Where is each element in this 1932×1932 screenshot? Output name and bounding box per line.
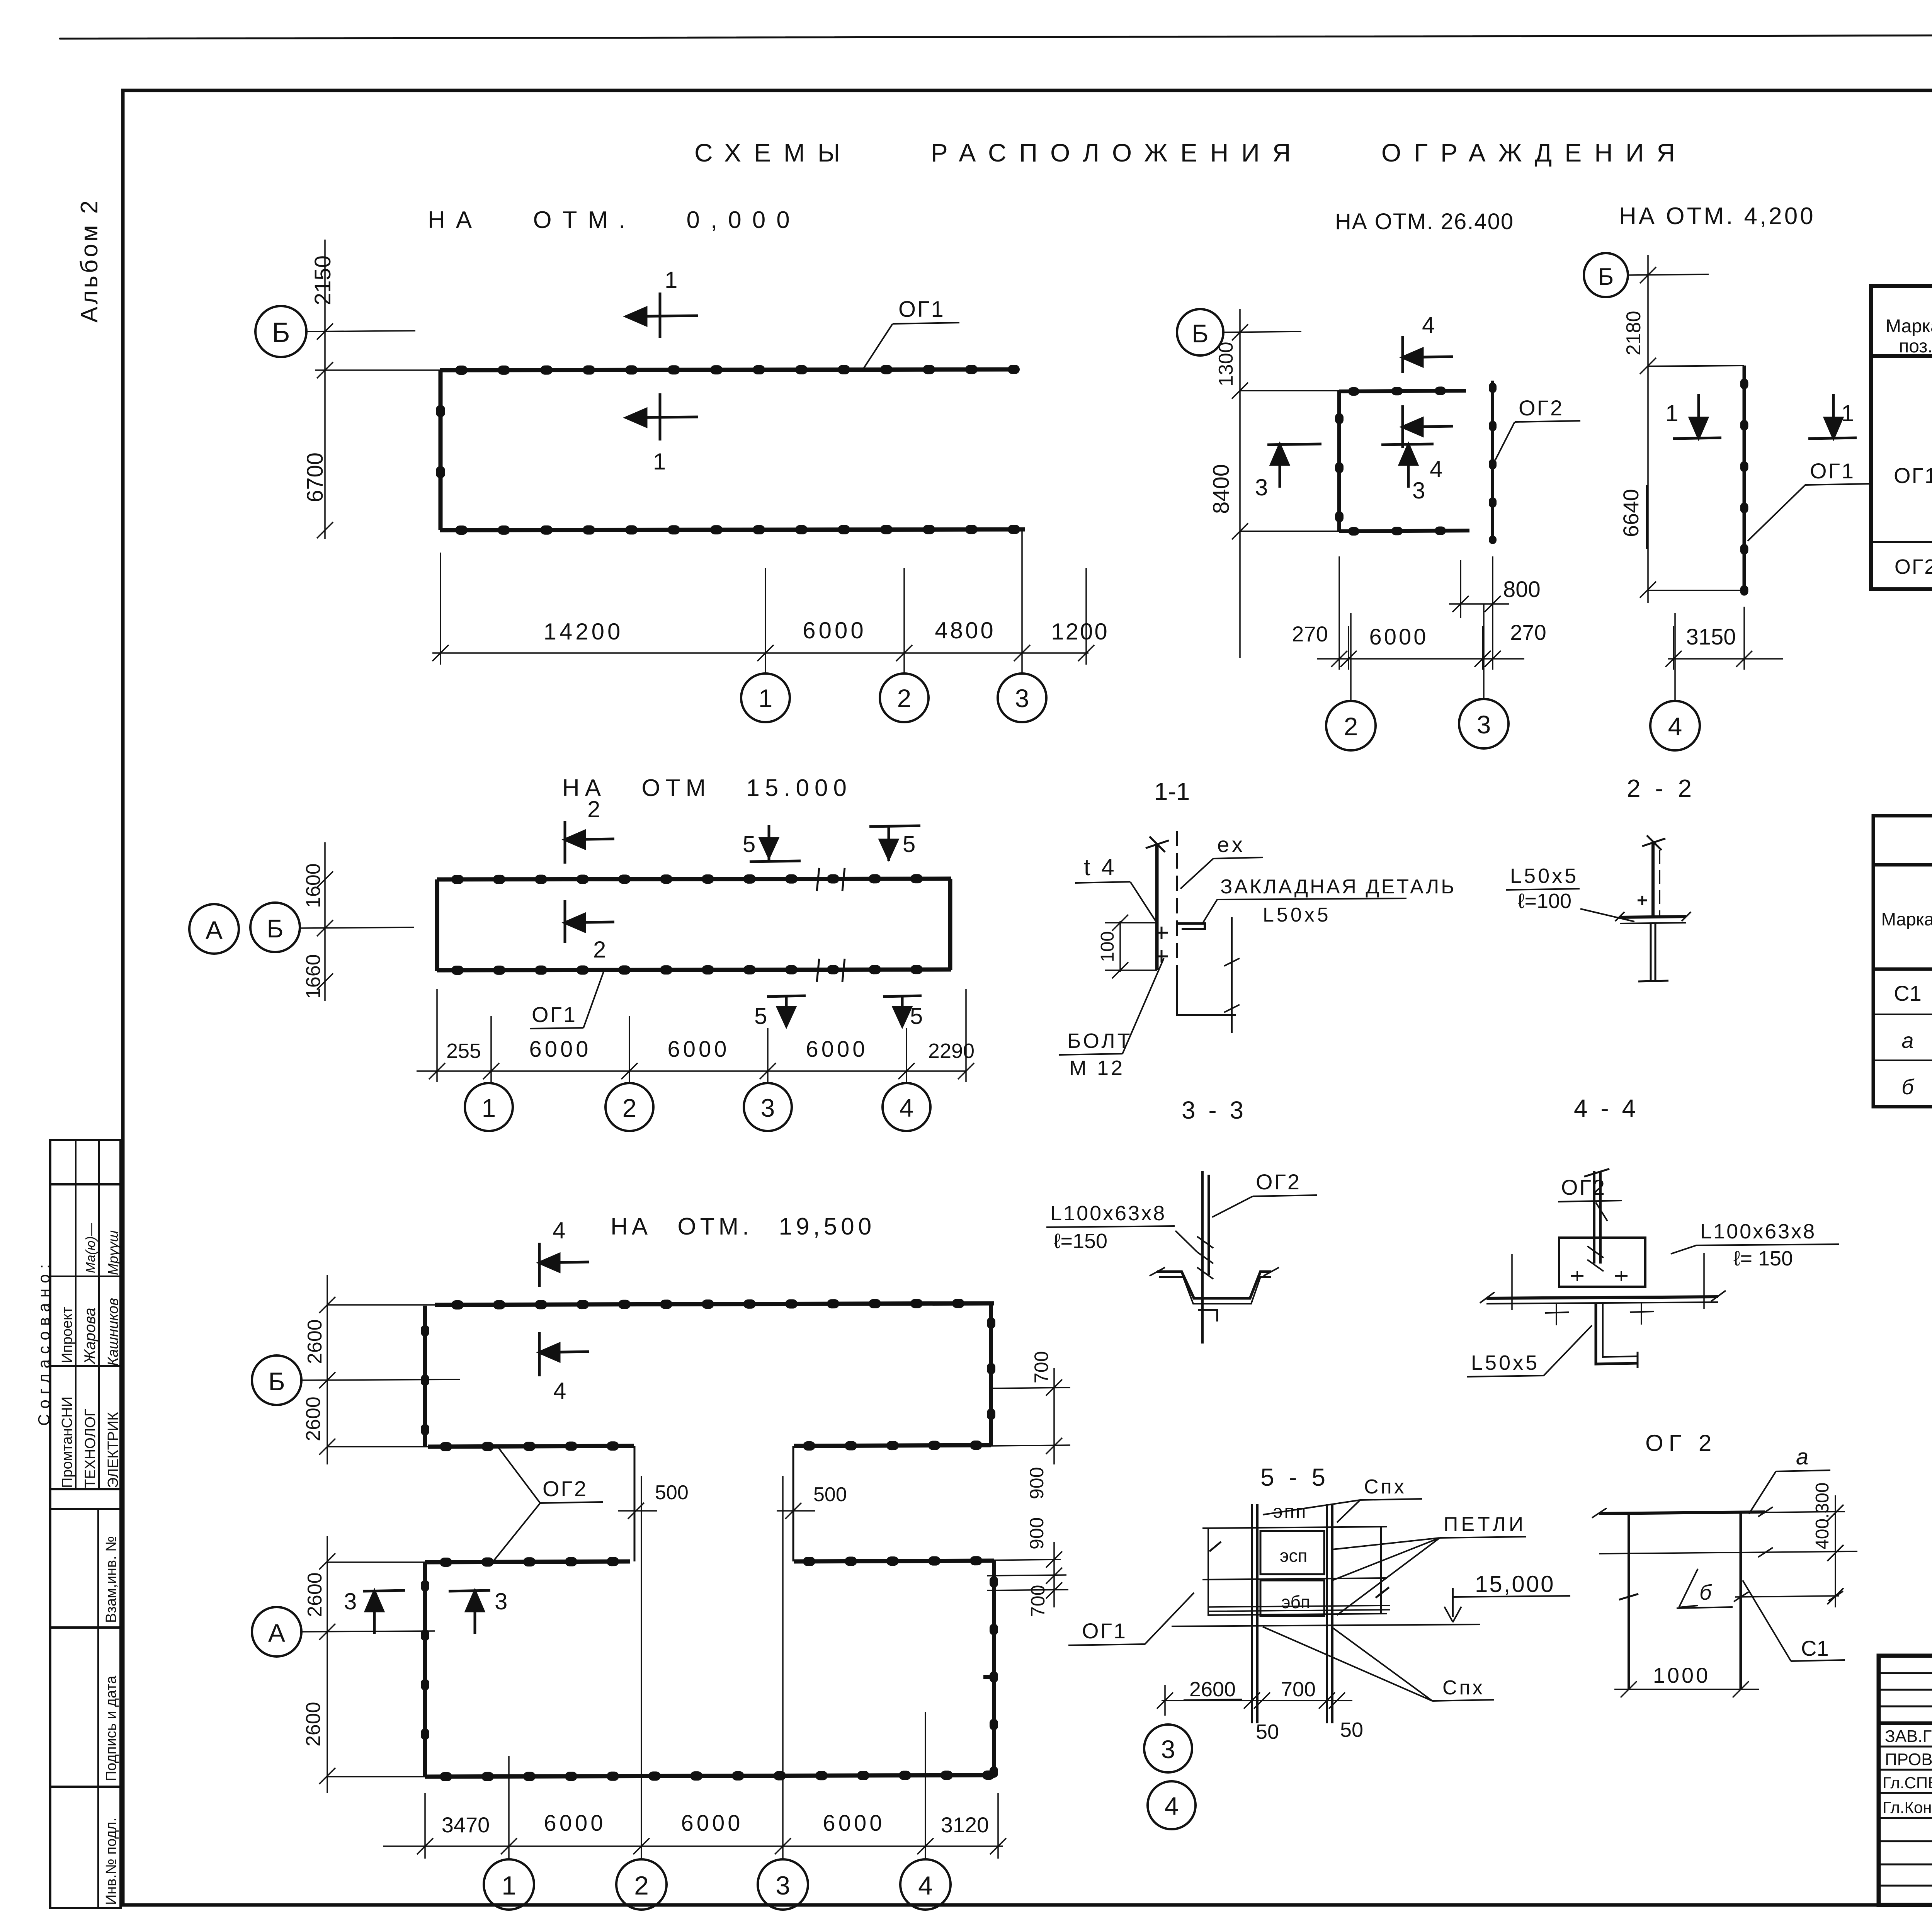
heavy jog lower band plan5: [983, 1675, 996, 1679]
post double line detail33: [1155, 845, 1159, 970]
section marker 3 right plan2: [1381, 444, 1434, 488]
axis circle B plan5: [252, 1355, 301, 1405]
svg-text:3: 3: [1412, 478, 1425, 503]
svg-text:4: 4: [1430, 456, 1442, 482]
svg-text:500: 500: [813, 1483, 847, 1506]
svg-text:270: 270: [1292, 622, 1328, 646]
svg-text:3 - 3: 3 - 3: [1182, 1096, 1247, 1124]
post box-right: [1594, 1171, 1600, 1264]
svg-text:ОГ2: ОГ2: [543, 1476, 588, 1501]
svg-text:СХЕМЫ РАСПОЛОЖЕНИЯ ОГРАЖДЕНИ: СХЕМЫ РАСПОЛОЖЕНИЯ ОГРАЖДЕНИЯ: [694, 138, 1688, 167]
section marker 3 left plan2: [1267, 444, 1321, 488]
posts detail55: [1252, 1504, 1257, 1723]
svg-text:б: б: [1901, 1075, 1915, 1099]
axis circle 3 plan1: [998, 673, 1046, 722]
svg-text:ОГ 2: ОГ 2: [1645, 1430, 1717, 1456]
axis circle 1 plan1: [741, 673, 790, 722]
svg-text:2600: 2600: [302, 1396, 325, 1441]
svg-text:1: 1: [759, 684, 773, 713]
svg-text:Согласовано:: Согласовано:: [35, 1259, 53, 1426]
svg-text:Кашников: Кашников: [105, 1298, 121, 1366]
section marker 5 top-left plan4: [750, 825, 801, 862]
dim 100 detail33: [1105, 915, 1157, 978]
lower band left post plan5: [423, 1562, 427, 1777]
bottom dim line plan2: [1317, 556, 1524, 670]
bent plate box-right: [1596, 1304, 1638, 1364]
svg-text:2: 2: [634, 1871, 649, 1900]
svg-text:700: 700: [1281, 1678, 1316, 1701]
axis circles plan5: [484, 1859, 951, 1910]
vertical dim line plan3: [1640, 255, 1656, 603]
fence line top plan1: [440, 369, 1015, 370]
vedomost table frame: [1873, 816, 1932, 1107]
SEC_TITLES2: [255, 240, 1109, 722]
spec table frame: [1871, 286, 1932, 589]
svg-text:ОГ2: ОГ2: [1895, 555, 1932, 578]
svg-text:6000: 6000: [823, 1811, 885, 1836]
axis circle B plan3: [1584, 253, 1628, 297]
svg-text:6000: 6000: [667, 1037, 730, 1062]
axis circle 2 plan1: [880, 673, 929, 722]
svg-text:Подпись и дата: Подпись и дата: [103, 1675, 119, 1781]
title block frame: [1879, 1656, 1932, 1905]
svg-text:800: 800: [1503, 577, 1541, 602]
upper band top line plan5: [435, 1303, 994, 1305]
svg-text:1: 1: [502, 1871, 516, 1900]
svg-text:3: 3: [776, 1871, 790, 1900]
section marker 2 top plan4: [565, 821, 614, 864]
svg-text:б: б: [1699, 1580, 1713, 1604]
svg-text:500: 500: [655, 1481, 689, 1504]
axis B line plan1: [306, 331, 415, 332]
top rail fragment: [1599, 1512, 1765, 1514]
left dim chain upper plan5: [319, 1275, 435, 1464]
channel section channel-left: [1157, 1272, 1271, 1298]
svg-text:Ма(ю)—: Ма(ю)—: [83, 1223, 98, 1273]
svg-text:L50х5: L50х5: [1471, 1351, 1539, 1374]
svg-text:Марка,: Марка,: [1886, 316, 1932, 337]
section marker 4 mid plan2: [1403, 405, 1453, 448]
svg-text:ОГ1: ОГ1: [532, 1002, 577, 1027]
svg-text:5: 5: [754, 1003, 767, 1029]
svg-text:3470: 3470: [442, 1813, 490, 1837]
svg-text:4: 4: [900, 1094, 914, 1122]
svg-text:С1: С1: [1801, 1636, 1829, 1660]
fence bottom plan3: [1648, 590, 1744, 591]
side verticals detail55: [1208, 1527, 1381, 1615]
section marker 1 upper plan1: [626, 293, 698, 338]
svg-text:15,000: 15,000: [1475, 1571, 1555, 1597]
svg-text:Взам,инв. №: Взам,инв. №: [103, 1536, 119, 1623]
svg-text:Жарова: Жарова: [82, 1308, 99, 1365]
section marker 1 left plan3: [1673, 394, 1721, 439]
svg-text:5: 5: [910, 1003, 923, 1029]
vertical dim plan4: [317, 842, 333, 1001]
svg-text:L50х5: L50х5: [1510, 864, 1578, 888]
post channel-left: [1202, 1171, 1209, 1344]
svg-text:3: 3: [761, 1094, 775, 1122]
section marker 1 right plan3: [1808, 394, 1857, 439]
svg-text:2600: 2600: [304, 1572, 326, 1617]
lower band top left segment plan5: [425, 1561, 630, 1562]
dim 400.300 fragment: [1835, 1495, 1836, 1607]
bottom dim detail55: [1157, 1685, 1352, 1716]
axis circle B plan4: [250, 903, 300, 952]
svg-text:ОГ1: ОГ1: [1082, 1619, 1127, 1643]
axis circle 4 plan3: [1650, 701, 1700, 750]
svg-text:6000: 6000: [803, 617, 866, 643]
svg-text:L100х63х8: L100х63х8: [1700, 1220, 1816, 1243]
svg-text:ОГ1: ОГ1: [1810, 459, 1855, 483]
svg-text:Б: Б: [267, 914, 283, 943]
svg-text:4 - 4: 4 - 4: [1574, 1094, 1639, 1122]
svg-text:2600: 2600: [304, 1319, 326, 1364]
stem detail44: [1651, 923, 1655, 980]
vertical dim line plan1: [315, 240, 440, 539]
svg-text:2: 2: [897, 684, 912, 713]
bolt crosses detail33: [1155, 927, 1168, 963]
joint break marks plan4: [817, 868, 845, 982]
svg-text:ОГ1: ОГ1: [1894, 463, 1932, 488]
svg-text:ПРОВ.: ПРОВ.: [1885, 1750, 1932, 1769]
fence rect plan4 bottom: [437, 969, 951, 970]
svg-text:50: 50: [1256, 1720, 1279, 1743]
svg-text:ТЕХНОЛОГ: ТЕХНОЛОГ: [82, 1408, 99, 1488]
svg-text:2: 2: [593, 937, 606, 963]
svg-text:ПЕТЛИ: ПЕТЛИ: [1444, 1513, 1526, 1536]
svg-text:Б: Б: [1192, 319, 1208, 348]
fence rect plan4 right: [948, 879, 952, 970]
svg-text:6640: 6640: [1619, 489, 1643, 537]
svg-text:a: a: [1796, 1444, 1808, 1469]
svg-text:4: 4: [1668, 712, 1682, 741]
slab line box-right: [1486, 1297, 1718, 1298]
svg-text:Гл.Конс.: Гл.Конс.: [1883, 1798, 1932, 1816]
svg-text:2180: 2180: [1622, 311, 1645, 355]
section marker 4 top plan5: [539, 1243, 589, 1287]
svg-text:эсп: эсп: [1280, 1546, 1307, 1566]
svg-text:5: 5: [743, 831, 755, 857]
post detail44: [1651, 843, 1655, 917]
svg-text:ℓ=100: ℓ=100: [1518, 889, 1571, 913]
svg-text:ЗАВ.ГР: ЗАВ.ГР: [1885, 1727, 1932, 1746]
SEC_SPECEND: [1873, 816, 1932, 1107]
svg-text:3: 3: [1015, 684, 1029, 713]
axis line plan4: [300, 927, 414, 928]
third rail fragment: [1735, 1596, 1839, 1597]
fence bottom plan2: [1240, 531, 1339, 532]
fence right post line plan3: [1743, 366, 1746, 592]
svg-text:6000: 6000: [529, 1037, 591, 1062]
svg-text:3: 3: [1255, 474, 1268, 500]
svg-text:700: 700: [1031, 1351, 1052, 1383]
section marker 5 bottom-left plan4: [767, 996, 806, 1026]
svg-text:900: 900: [1026, 1517, 1048, 1549]
top edge thin line: [60, 34, 1932, 39]
svg-text:1: 1: [482, 1094, 496, 1122]
axis circle A plan4: [189, 904, 239, 954]
svg-text:НА ОТМ. 4,200: НА ОТМ. 4,200: [1619, 203, 1816, 230]
svg-text:1: 1: [653, 449, 666, 474]
svg-text:3: 3: [495, 1588, 507, 1614]
svg-text:а: а: [1901, 1028, 1913, 1053]
SEC_PLAN1END: [1154, 309, 1580, 805]
dim 1000 fragment: [1614, 1681, 1759, 1697]
svg-text:t 4: t 4: [1084, 854, 1117, 880]
slash mark detail55: [1209, 1542, 1389, 1598]
svg-text:2: 2: [1344, 712, 1358, 741]
svg-text:100: 100: [1097, 931, 1118, 962]
jog verticals 500 plan5: [634, 1446, 793, 1561]
tee bar detail44: [1620, 917, 1686, 917]
svg-text:ℓ= 150: ℓ= 150: [1733, 1247, 1793, 1270]
svg-text:Инв.№ подл.: Инв.№ подл.: [103, 1818, 119, 1905]
upper band bottom right segment plan5: [794, 1445, 991, 1446]
svg-text:1000: 1000: [1653, 1663, 1711, 1687]
section marker 1 lower plan1: [626, 393, 698, 440]
plate bracket detail33: [1177, 923, 1205, 929]
bottom double line detail55: [1207, 1605, 1390, 1611]
axis circle 3 detail55: [1144, 1725, 1192, 1772]
section marker 4 lower plan5: [539, 1332, 589, 1376]
svg-text:3150: 3150: [1686, 624, 1736, 650]
fence rect plan4 top: [437, 879, 951, 879]
SEC_DETAILSEND: [1871, 286, 1932, 589]
svg-text:А: А: [206, 916, 223, 944]
svg-text:1: 1: [1841, 400, 1854, 426]
svg-text:1: 1: [1665, 400, 1678, 426]
svg-text:400.300: 400.300: [1812, 1482, 1833, 1549]
svg-text:1660: 1660: [302, 954, 325, 999]
SEC_PLAN15END: [252, 1213, 1194, 1910]
dim 500 left plan5: [618, 1503, 657, 1519]
fence rect plan4 left: [435, 879, 439, 971]
svg-text:6000: 6000: [681, 1811, 743, 1836]
svg-text:2: 2: [622, 1094, 637, 1122]
axis B line plan3: [1628, 274, 1709, 275]
bracket detail44: [1638, 896, 1647, 905]
section marker 3 right plan5: [449, 1590, 490, 1634]
svg-text:Альбом 2: Альбом 2: [76, 198, 103, 323]
right post fragment: [1740, 1514, 1742, 1689]
upper band bottom left segment plan5: [428, 1446, 634, 1447]
svg-text:Спх: Спх: [1364, 1476, 1406, 1498]
svg-text:2600: 2600: [1189, 1678, 1236, 1701]
svg-text:НА ОТМ. 19,500: НА ОТМ. 19,500: [611, 1213, 875, 1240]
svg-text:2 - 2: 2 - 2: [1627, 774, 1696, 802]
svg-text:Гл.СПЕЦ: Гл.СПЕЦ: [1883, 1774, 1932, 1792]
right jogs upper band plan5: [991, 1368, 1070, 1464]
axis circle B plan2: [1177, 309, 1223, 355]
svg-text:3: 3: [1477, 710, 1491, 739]
fence left post plan2: [1337, 391, 1341, 531]
svg-text:ЭЛЕКТРИК: ЭЛЕКТРИК: [105, 1412, 121, 1488]
lower stem detail33: [1177, 970, 1236, 1015]
lower band top right segment plan5: [794, 1561, 994, 1561]
svg-text:НА ОТМ. 0,000: НА ОТМ. 0,000: [428, 207, 801, 233]
left dim chain lower plan5: [319, 1536, 425, 1793]
svg-text:900: 900: [1026, 1467, 1048, 1499]
fence post left plan1: [439, 370, 443, 530]
svg-text:Спх: Спх: [1442, 1677, 1485, 1699]
svg-text:700: 700: [1027, 1585, 1049, 1617]
svg-text:4: 4: [1422, 312, 1435, 338]
svg-text:L50х5: L50х5: [1263, 904, 1331, 926]
axis circle 4 detail55: [1148, 1781, 1196, 1829]
svg-text:270: 270: [1510, 620, 1546, 645]
svg-text:14200: 14200: [544, 619, 624, 645]
svg-text:НА ОТМ 15.000: НА ОТМ 15.000: [562, 775, 852, 801]
box box-right: [1559, 1238, 1645, 1287]
bottom dim line plan5: [383, 1476, 1006, 1859]
svg-text:ℓ=150: ℓ=150: [1054, 1230, 1107, 1253]
svg-text:Мрүуш: Мрүуш: [105, 1230, 121, 1275]
fence top plan3: [1648, 366, 1744, 366]
left post fragment: [1628, 1514, 1630, 1689]
svg-text:1300: 1300: [1215, 342, 1237, 386]
second rail fragment: [1599, 1551, 1857, 1554]
svg-text:НА ОТМ. 26.400: НА ОТМ. 26.400: [1335, 209, 1514, 234]
rails detail55: [1202, 1527, 1387, 1528]
svg-text:ПромтанСНИ: ПромтанСНИ: [59, 1396, 75, 1488]
svg-text:255: 255: [446, 1039, 481, 1063]
svg-text:2600: 2600: [302, 1702, 325, 1747]
svg-text:6000: 6000: [1369, 624, 1428, 650]
svg-text:Марка: Марка: [1881, 909, 1932, 929]
svg-text:ОГ2: ОГ2: [1256, 1170, 1301, 1194]
svg-text:5 - 5: 5 - 5: [1260, 1463, 1329, 1491]
svg-text:1-1: 1-1: [1154, 777, 1190, 805]
svg-text:4800: 4800: [935, 617, 995, 643]
svg-text:ЗАКЛАДНАЯ ДЕТАЛЬ: ЗАКЛАДНАЯ ДЕТАЛЬ: [1220, 876, 1456, 898]
svg-text:1600: 1600: [302, 863, 325, 908]
hook bottom channel-left: [1198, 1310, 1217, 1321]
lower band bottom plan5: [425, 1775, 996, 1777]
svg-text:4: 4: [1165, 1792, 1179, 1820]
svg-text:2290: 2290: [928, 1039, 975, 1063]
section marker 5 top-right plan4: [869, 826, 920, 861]
left margin stamp table: [50, 1140, 121, 1908]
axis circle 3 plan2: [1459, 699, 1509, 748]
svg-text:Ипроект: Ипроект: [59, 1307, 75, 1363]
svg-text:1: 1: [665, 267, 677, 293]
svg-text:БОЛТ: БОЛТ: [1067, 1029, 1133, 1053]
section marker 2 mid plan4: [565, 900, 614, 943]
upper band left post plan5: [423, 1306, 427, 1447]
svg-text:эпп: эпп: [1273, 1502, 1307, 1522]
svg-text:8400: 8400: [1209, 464, 1234, 514]
SEC_PLAN23END: [189, 775, 975, 1131]
svg-text:6700: 6700: [303, 452, 328, 502]
fence line bottom plan1: [440, 529, 1025, 530]
svg-text:4: 4: [553, 1378, 566, 1404]
svg-text:3120: 3120: [941, 1813, 989, 1837]
svg-text:6000: 6000: [806, 1037, 868, 1062]
SEC_PLAN19END: [1059, 831, 1456, 1124]
svg-text:5: 5: [903, 831, 915, 857]
panel boxes detail55: [1260, 1531, 1324, 1574]
svg-text:4: 4: [553, 1218, 565, 1243]
fence top plan2: [1240, 390, 1339, 391]
bottom dim plan3: [1665, 607, 1783, 670]
fence right strip plan2: [1491, 381, 1494, 540]
svg-text:1200: 1200: [1051, 619, 1109, 645]
svg-text:6000: 6000: [544, 1811, 606, 1836]
axis circles 1-4 plan4: [465, 1083, 930, 1131]
svg-text:поз.: поз.: [1899, 336, 1932, 357]
bottom dim line plan4: [417, 989, 974, 1082]
svg-text:эбп: эбп: [1281, 1592, 1310, 1612]
section marker 3 left plan5: [363, 1590, 405, 1634]
svg-text:ОГ1: ОГ1: [898, 297, 945, 322]
axis circle 2 plan2: [1326, 701, 1376, 750]
svg-text:L100х63х8: L100х63х8: [1050, 1202, 1166, 1225]
svg-text:А: А: [268, 1619, 285, 1647]
svg-text:С1: С1: [1894, 981, 1922, 1005]
svg-text:3: 3: [344, 1588, 357, 1614]
dim 500 right plan5: [777, 1503, 815, 1519]
section marker 4 top plan2: [1403, 336, 1453, 373]
right jogs lower band plan5: [947, 1542, 1068, 1607]
vertical dim line plan2: [1232, 309, 1248, 658]
section marker 5 bottom-right plan4: [883, 996, 922, 1026]
bottom dim line plan1: [432, 530, 1094, 673]
lower band right post plan5: [992, 1561, 996, 1775]
svg-text:2: 2: [587, 796, 600, 822]
upper band right post plan5: [989, 1303, 993, 1446]
svg-text:ОГ2: ОГ2: [1519, 396, 1564, 420]
dim extension right detail33: [1224, 917, 1240, 1033]
axis circle A plan5: [252, 1607, 301, 1656]
floor line detail55: [1172, 1624, 1480, 1626]
svg-text:2150: 2150: [310, 255, 335, 305]
axis B line plan2: [1223, 332, 1301, 332]
svg-text:Б: Б: [1598, 264, 1614, 290]
svg-text:Б: Б: [272, 317, 290, 348]
svg-text:50: 50: [1340, 1718, 1363, 1742]
svg-text:ех: ех: [1217, 832, 1246, 857]
axis circle B plan1: [255, 306, 306, 357]
tees below slab box-right: [1545, 1303, 1654, 1325]
svg-text:4: 4: [918, 1871, 933, 1900]
svg-text:Б: Б: [268, 1367, 285, 1396]
svg-text:3: 3: [1161, 1735, 1175, 1764]
svg-text:М 12: М 12: [1069, 1056, 1125, 1080]
